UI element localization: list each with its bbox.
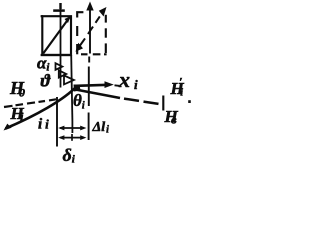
svg-text:H0: H0 xyxy=(9,78,25,100)
svg-text:ϑ: ϑ xyxy=(41,71,52,91)
svg-text:Hв: Hв xyxy=(164,107,179,127)
svg-text:Hi: Hi xyxy=(10,104,25,124)
svg-text:Hi′: Hi′ xyxy=(170,75,185,99)
